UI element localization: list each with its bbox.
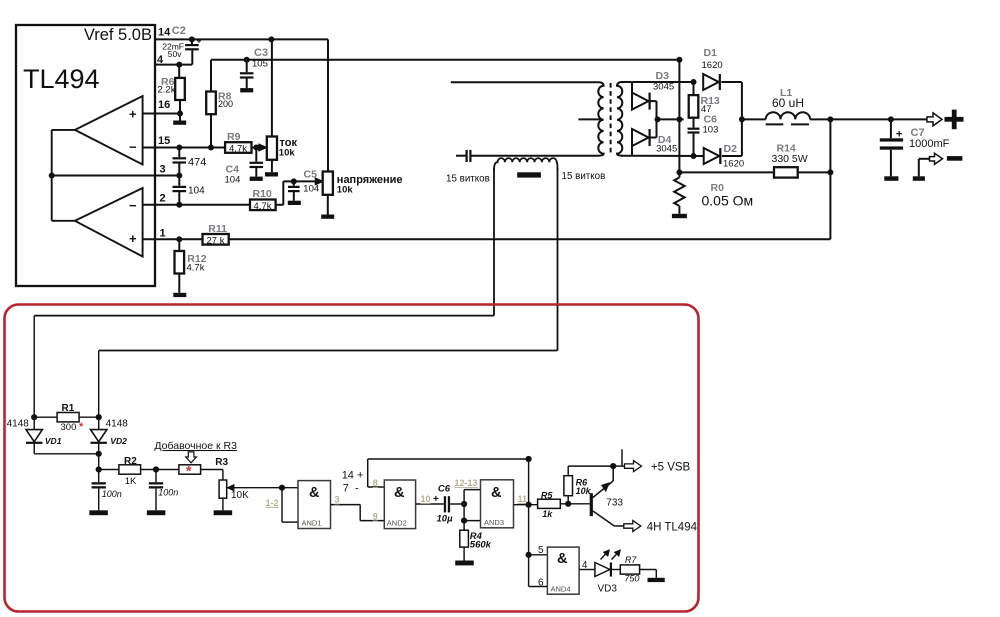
node C5 — [291, 178, 297, 184]
svg-text:16: 16 — [158, 99, 170, 111]
svg-text:2: 2 — [160, 193, 166, 205]
svg-text:300: 300 — [61, 422, 77, 433]
node rectifier out — [655, 116, 661, 122]
resistor R2 1K — [99, 456, 179, 487]
svg-text:9: 9 — [373, 512, 378, 522]
transformer T1 core — [610, 83, 612, 155]
node AND3 out — [526, 502, 532, 508]
capacitor C7 1000mF — [880, 119, 950, 180]
wire AND1 out to AND2 pin9 — [331, 505, 385, 521]
capacitor 100n second — [147, 470, 178, 516]
svg-text:C3: C3 — [254, 47, 268, 59]
svg-text:10µ: 10µ — [437, 514, 454, 525]
resistor R10 4.7k — [250, 181, 283, 211]
node collector — [610, 463, 616, 469]
resistor R14 330 5W — [679, 143, 830, 178]
wire primary bottom — [472, 155, 599, 157]
wire snubber vertical — [678, 60, 680, 173]
node C6 bottom — [691, 153, 697, 159]
node L1 out — [827, 116, 833, 122]
arrow 4H TL494 — [624, 521, 641, 532]
svg-text:&: & — [309, 485, 320, 501]
svg-text:AND1: AND1 — [302, 519, 322, 528]
wire AND1 lower input — [282, 488, 298, 522]
diode D1 1620 — [702, 47, 742, 119]
node L1 in — [739, 116, 745, 122]
AND gate AND3 — [481, 480, 514, 528]
svg-text:R10: R10 — [253, 188, 272, 200]
svg-text:AND3: AND3 — [484, 518, 504, 527]
wire output sense vertical — [829, 119, 831, 239]
node feedback top — [526, 456, 532, 462]
svg-text:TL494: TL494 — [23, 64, 100, 94]
wire primary center tap — [578, 118, 600, 120]
capacitor C6 10u coupling — [433, 484, 464, 525]
svg-text:1620: 1620 — [702, 60, 723, 71]
wiper arrow TOK — [259, 144, 267, 151]
node R12 top — [176, 236, 182, 242]
capacitor C4 104 — [225, 148, 264, 186]
resistor R7 750 — [620, 555, 664, 584]
svg-text:733: 733 — [606, 498, 623, 509]
svg-text:4.7k: 4.7k — [187, 263, 205, 274]
wire T2 left leg — [34, 168, 494, 316]
potentiometer R3 10K — [214, 457, 249, 515]
svg-text:+5 VSB: +5 VSB — [651, 462, 691, 474]
svg-text:4148: 4148 — [7, 419, 30, 430]
op-amp comparator 1 (error amp) — [75, 96, 143, 165]
svg-text:3: 3 — [335, 495, 340, 505]
resistor R12 4.7k — [173, 239, 206, 297]
resistor R6 2.2k — [158, 65, 185, 114]
AND gate AND4 — [547, 547, 579, 594]
svg-text:R7: R7 — [625, 555, 637, 565]
resistor R8 200 — [206, 91, 233, 148]
node C2 top — [189, 36, 195, 42]
ground pin16 — [173, 114, 186, 125]
svg-text:&: & — [557, 551, 568, 567]
plus terminal symbol — [945, 110, 964, 130]
wire AND2 out — [416, 503, 444, 505]
node R8 bottom — [208, 145, 214, 151]
node VD2 mid — [96, 451, 102, 457]
svg-text:103: 103 — [703, 125, 719, 136]
svg-text:R3: R3 — [215, 457, 228, 468]
resistor R11 27k — [203, 223, 229, 246]
svg-text:200: 200 — [218, 99, 233, 109]
svg-text:VD1: VD1 — [45, 436, 62, 446]
node R13 top — [691, 79, 697, 85]
svg-text:10K: 10K — [231, 490, 249, 501]
svg-text:330 5W: 330 5W — [772, 153, 808, 165]
resistor R4 560k — [455, 530, 491, 565]
wire AND4 out — [579, 569, 595, 571]
node AND4 in — [526, 552, 532, 558]
wire VD1 branch vertical — [33, 316, 35, 418]
capacitor series primary — [456, 150, 472, 162]
wire L1 node stub — [740, 118, 766, 120]
AND gate AND2 — [384, 480, 415, 529]
potentiometer TOK 10k — [265, 39, 297, 176]
svg-text:C6: C6 — [438, 484, 451, 495]
diode D3 3045 — [632, 70, 674, 119]
svg-text:104: 104 — [225, 175, 241, 186]
node snubber rail right — [676, 57, 682, 63]
node R2 left — [96, 466, 102, 472]
svg-text:*: * — [79, 421, 84, 433]
resistor R0 0.05 Ohm shunt — [672, 172, 753, 218]
svg-text:474: 474 — [188, 157, 206, 169]
node main vertical — [676, 116, 682, 122]
svg-text:Добавочное к R3: Добавочное к R3 — [154, 440, 237, 452]
svg-text:560k: 560k — [470, 540, 492, 551]
svg-text:+: + — [129, 231, 137, 246]
diode VD2 4148 — [91, 417, 129, 469]
svg-text:104: 104 — [303, 184, 319, 195]
wire R3 wiper to AND1 — [234, 487, 298, 489]
node AND3 lower input — [461, 518, 467, 524]
svg-text:104: 104 — [188, 186, 205, 197]
svg-text:12-13: 12-13 — [455, 478, 478, 488]
svg-text:60 uH: 60 uH — [772, 96, 804, 110]
svg-text:&: & — [394, 485, 405, 501]
wiper arrow voltage pot — [315, 178, 323, 185]
svg-text:D1: D1 — [704, 47, 718, 59]
diode D4 3045 — [632, 119, 677, 156]
wire collector to +5VSB — [613, 449, 624, 466]
capacitor 104 feedback — [173, 176, 206, 205]
svg-text:8: 8 — [373, 478, 378, 488]
svg-text:R2: R2 — [124, 456, 137, 467]
svg-text:1K: 1K — [125, 476, 137, 487]
transistor Q1 A733 — [590, 466, 624, 526]
potentiometer voltage 10k — [321, 172, 402, 219]
svg-text:C2: C2 — [172, 25, 186, 37]
node C6 out — [461, 501, 467, 507]
node R0 top — [676, 169, 682, 175]
svg-text:+: + — [433, 494, 439, 505]
node R6 standby bottom — [565, 501, 571, 507]
svg-text:VD2: VD2 — [110, 436, 127, 446]
node VD1 top — [31, 414, 37, 420]
svg-text:4.7k: 4.7k — [229, 144, 247, 155]
capacitor 100n first — [89, 470, 121, 516]
svg-text:AND4: AND4 — [551, 585, 571, 594]
svg-text:2.2k: 2.2k — [158, 85, 176, 96]
wiper arrow R3 — [227, 485, 234, 491]
inductor L1 60uH — [766, 87, 810, 124]
svg-text:14: 14 — [158, 27, 171, 39]
svg-text:15 витков: 15 витков — [562, 171, 606, 182]
wire primary top — [451, 81, 598, 83]
LED VD3 — [595, 550, 620, 595]
resistor R6 10k standby — [564, 466, 613, 504]
minus terminal symbol — [947, 156, 963, 161]
wire secondary top to D1 — [621, 81, 694, 83]
wire pin4 — [155, 64, 192, 66]
node VD2 top — [96, 414, 102, 420]
wire pin16 to ground — [143, 113, 180, 115]
capacitor C5 104 — [288, 169, 319, 206]
svg-text:R1: R1 — [62, 403, 75, 414]
svg-text:11: 11 — [518, 494, 528, 504]
svg-text:4148: 4148 — [106, 419, 129, 430]
wire L1 to plus output — [810, 118, 931, 120]
wire AND3 inputs — [464, 490, 480, 531]
svg-text:1000mF: 1000mF — [909, 138, 950, 150]
svg-text:105: 105 — [252, 59, 268, 70]
svg-text:6: 6 — [538, 578, 544, 589]
minus terminal branch — [913, 159, 933, 181]
op-amp comparator 2 (error amp) — [75, 188, 143, 257]
svg-text:100n: 100n — [102, 489, 122, 499]
node pin3 caps — [176, 173, 182, 179]
IC U1 TL494 body — [16, 25, 155, 286]
wire AND4 pin5 — [529, 554, 548, 556]
wire T2 right leg — [99, 168, 558, 351]
transformer T1 primary winding — [598, 82, 604, 155]
svg-text:1: 1 — [160, 228, 166, 240]
svg-text:1k: 1k — [542, 509, 553, 519]
svg-text:Vref 5.0B: Vref 5.0B — [84, 26, 152, 44]
capacitor C2 22mF — [162, 25, 201, 65]
wire VD2 branch vertical — [98, 351, 100, 418]
AND gate AND1 — [298, 481, 331, 529]
svg-text:0.05 Ом: 0.05 Ом — [702, 193, 754, 209]
node caps pin15 — [176, 145, 182, 151]
diode VD1 4148 — [7, 417, 62, 454]
resistor R5 1k — [538, 491, 590, 520]
svg-text:3045: 3045 — [653, 82, 674, 93]
svg-text:15: 15 — [158, 135, 170, 147]
diode D2 1620 — [704, 119, 744, 169]
svg-text:−: − — [129, 198, 137, 213]
wire pin3 — [52, 175, 180, 177]
wire AND4 pin6 — [529, 586, 548, 588]
svg-text:10k: 10k — [576, 486, 592, 496]
node R9 C4 — [253, 145, 259, 151]
svg-text:4H TL494: 4H TL494 — [647, 522, 698, 534]
svg-text:50v: 50v — [168, 49, 182, 59]
node AND1 input — [279, 485, 285, 491]
wire AND3 feedback to AND2 pin8 — [368, 459, 529, 487]
svg-text:15 витков: 15 витков — [446, 174, 490, 185]
resistor R13 47 — [689, 82, 720, 128]
node C3 top — [244, 57, 250, 63]
transformer T2 base drive winding — [494, 158, 558, 170]
capacitor 474 feedback — [173, 148, 207, 176]
node C7 top — [888, 116, 894, 122]
transformer T2 core bar — [517, 172, 541, 177]
svg-text:1-2: 1-2 — [266, 498, 279, 508]
svg-text:+: + — [197, 35, 202, 45]
transformer T1 secondary winding — [617, 82, 623, 156]
wire VD1 to VD2 — [34, 453, 99, 455]
wire pin1 feedback — [143, 238, 831, 240]
arrow +5 VSB — [625, 461, 642, 472]
node R6 top — [176, 62, 182, 68]
svg-text:AND2: AND2 — [387, 519, 407, 528]
node C8 top — [153, 466, 159, 472]
wire pin2 — [143, 204, 250, 206]
resistor R1 300 — [34, 403, 99, 433]
svg-text:750: 750 — [624, 574, 639, 584]
svg-text:14 +: 14 + — [342, 470, 364, 482]
svg-text:R5: R5 — [541, 491, 553, 501]
wire to R3 — [201, 470, 223, 481]
svg-text:27 k: 27 k — [207, 235, 225, 246]
resistor R9 4.7k — [225, 131, 259, 155]
svg-text:VD3: VD3 — [598, 584, 618, 595]
svg-text:7 -: 7 - — [343, 483, 359, 495]
node op-amp outputs — [49, 173, 55, 179]
wire pin15 — [143, 147, 226, 149]
svg-text:&: & — [491, 485, 502, 501]
svg-text:1620: 1620 — [723, 159, 744, 170]
wire AND3 out vertical — [528, 459, 530, 587]
resistor dobavochnoe (add-on to R3) — [154, 440, 237, 479]
wire pin14 Vref rail — [155, 39, 328, 171]
capacitor C6 103 snubber — [688, 114, 719, 157]
svg-text:3: 3 — [160, 164, 166, 176]
svg-text:D3: D3 — [656, 70, 670, 82]
wire AND3 out — [514, 504, 538, 506]
svg-text:3045: 3045 — [656, 144, 677, 155]
svg-text:5: 5 — [538, 545, 544, 556]
svg-text:C5: C5 — [304, 169, 318, 181]
capacitor C3 105 — [240, 47, 268, 92]
svg-text:10: 10 — [421, 494, 431, 504]
node pin16 — [177, 111, 183, 117]
node R14 right — [827, 169, 833, 175]
svg-text:10k: 10k — [337, 185, 354, 196]
wire rectifier node — [657, 118, 684, 120]
wire C3 rail — [211, 60, 679, 92]
node TOK pot top — [268, 36, 274, 42]
wire secondary bottom — [621, 155, 704, 157]
svg-text:*: * — [186, 463, 192, 479]
red highlight box — [5, 305, 699, 612]
svg-text:10k: 10k — [279, 148, 296, 159]
svg-text:4.7k: 4.7k — [254, 201, 272, 212]
svg-text:+: + — [129, 107, 137, 122]
svg-text:D2: D2 — [724, 143, 738, 155]
arrow plus output — [927, 113, 942, 126]
node pin2 cap — [176, 202, 182, 208]
svg-text:−: − — [129, 140, 137, 155]
arrow minus output — [930, 153, 943, 164]
svg-text:100n: 100n — [158, 488, 178, 498]
wire op-amp outputs to pin3 node — [52, 130, 75, 221]
wire C5 to voltage pot — [283, 180, 315, 182]
svg-text:+: + — [896, 129, 902, 141]
